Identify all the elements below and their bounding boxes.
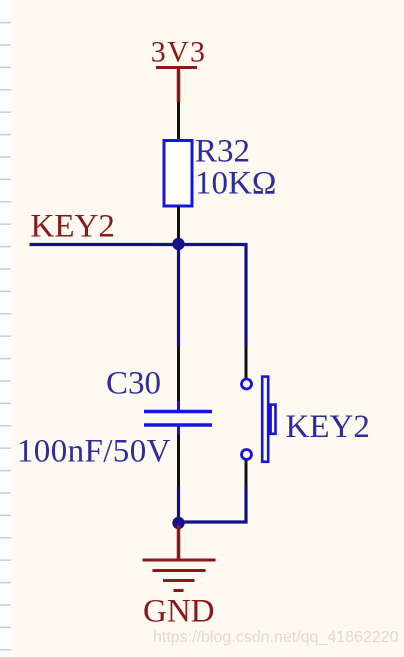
junction at node KEY2 <box>172 238 184 250</box>
wire from node KEY2 to switch <box>179 245 247 347</box>
switch KEY2 (push button) <box>242 377 276 462</box>
power symbol 3V3 <box>156 68 197 103</box>
ground symbol GND <box>143 525 216 591</box>
svg-text:GND: GND <box>143 594 215 630</box>
capacitor C30 <box>144 412 212 426</box>
pin R32.1 <box>177 102 180 140</box>
svg-text:KEY2: KEY2 <box>286 409 370 445</box>
wire from node KEY2 down to C30 <box>177 245 180 347</box>
capacitor C30 top lead stub <box>177 401 180 410</box>
svg-text:R32: R32 <box>195 134 250 170</box>
svg-text:https://blog.csdn.net/qq_41862: https://blog.csdn.net/qq_41862220 <box>153 629 399 646</box>
pin C30.1 <box>177 346 180 402</box>
resistor R32 <box>164 141 192 207</box>
pin R32.2 <box>177 206 180 243</box>
capacitor C30 bottom lead stub <box>177 427 180 436</box>
left panel ruler strip (adjacent sheet edge) <box>0 0 17 657</box>
svg-text:10KΩ: 10KΩ <box>195 166 276 202</box>
svg-text:3V3: 3V3 <box>151 35 207 68</box>
svg-text:100nF/50V: 100nF/50V <box>17 434 171 470</box>
pin switch KEY2 pin 1 <box>245 346 248 378</box>
svg-text:KEY2: KEY2 <box>31 209 115 245</box>
wire switch to ground node <box>179 486 247 522</box>
junction at ground node <box>172 517 184 529</box>
wire C30 to ground node <box>177 487 180 522</box>
pin C30.2 <box>177 435 180 488</box>
wire KEY2 horizontal <box>30 243 179 246</box>
svg-text:C30: C30 <box>106 366 161 402</box>
pin switch KEY2 pin 2 <box>245 461 248 487</box>
